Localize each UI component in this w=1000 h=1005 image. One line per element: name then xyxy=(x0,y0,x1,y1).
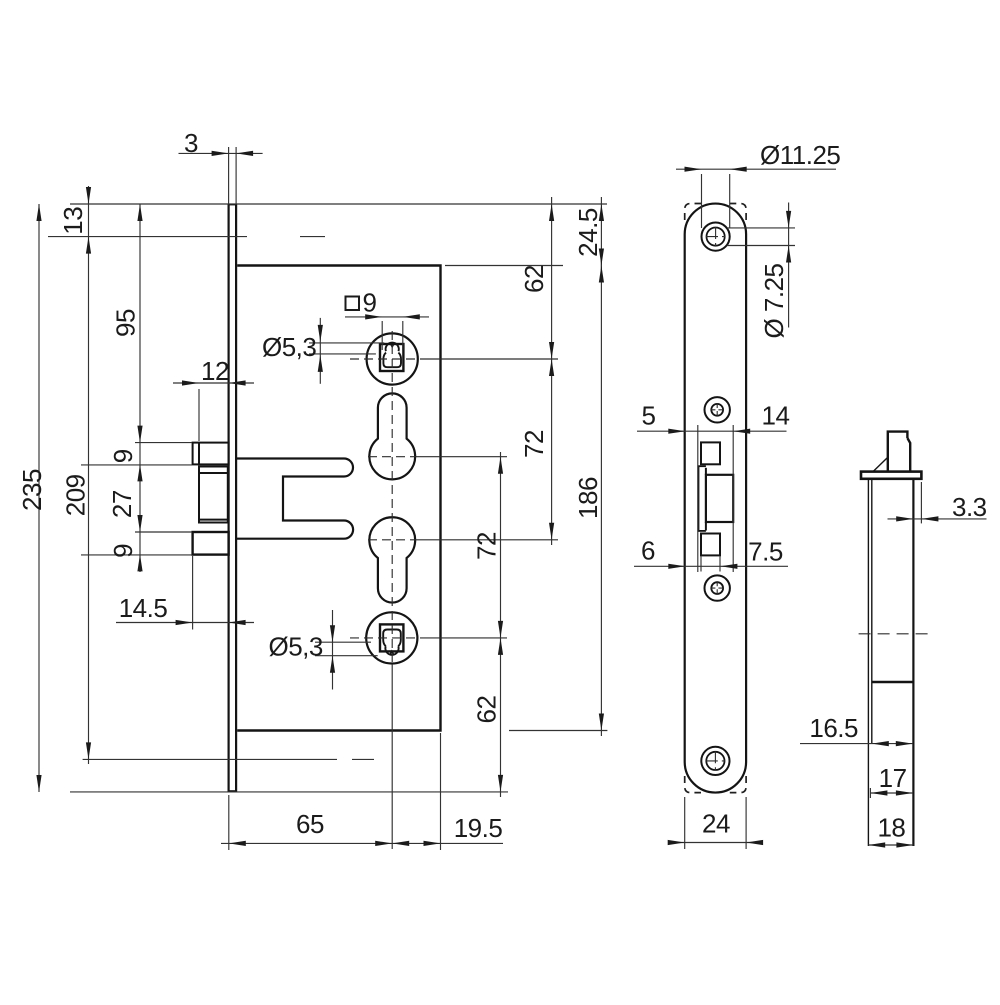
ext 24 left xyxy=(684,797,686,849)
sq9 dim arrows xyxy=(365,314,382,319)
13 arrows xyxy=(86,187,91,204)
ext 24 right xyxy=(745,797,747,849)
9 bottom arrow xyxy=(137,554,142,571)
3 dim arrows xyxy=(212,151,229,156)
case left outer wall xyxy=(867,479,869,846)
hole3 horizontal centerline dashes xyxy=(368,539,417,541)
top screw hole inner xyxy=(707,228,725,246)
svg-text:13: 13 xyxy=(58,207,88,235)
12 dim arrows xyxy=(182,380,199,385)
3.3 arrows xyxy=(896,516,913,521)
latch window top square xyxy=(701,442,720,464)
window jog bottom xyxy=(698,530,706,532)
window inner edge upper xyxy=(705,468,707,475)
ext grey left cutout xyxy=(697,425,699,572)
dim o7.25 vertical line xyxy=(788,203,790,328)
latch window bottom square xyxy=(701,534,720,556)
bottom screw cross xyxy=(714,751,716,770)
latch thin diagonal xyxy=(873,457,887,471)
middle view dashed square ends xyxy=(685,204,746,793)
top screw hole outer xyxy=(702,223,730,251)
ext line faceplate top level (long) xyxy=(70,203,607,205)
fork cutout in case xyxy=(236,459,353,539)
faceplate bottom edge xyxy=(229,790,237,792)
follower hole 4 circle o5.3 bottom arc xyxy=(385,646,398,655)
dim line 95 / 9 27 9 chain xyxy=(139,204,141,572)
vertical centerline solid below hole 4 xyxy=(391,664,393,849)
svg-text:Ø5,3: Ø5,3 xyxy=(269,632,323,662)
ext 3.3 faceplate right edge down xyxy=(920,482,922,523)
ext case right edge down xyxy=(440,733,442,850)
follower hole 1 circle o5.3 top arc xyxy=(386,343,399,352)
svg-text:Ø11.25: Ø11.25 xyxy=(760,140,840,170)
svg-text:9: 9 xyxy=(363,287,377,317)
19.5 arrows xyxy=(392,841,409,846)
ext ticks bottom square xyxy=(700,557,702,572)
upper middle screw outer xyxy=(705,397,730,422)
svg-text:17: 17 xyxy=(879,763,907,793)
24.5 arrows xyxy=(599,204,604,221)
dim 3 line above faceplate xyxy=(179,152,263,154)
latch bevel corner xyxy=(907,438,910,471)
vertical centerline through holes (dashed) xyxy=(391,331,393,664)
ext latch top xyxy=(135,442,192,444)
dim sq9 line xyxy=(345,316,429,318)
ext dash right of faceplate bottom screw axis xyxy=(352,758,374,760)
faceplate front edge (left line) xyxy=(228,204,230,792)
dim line 186 xyxy=(600,261,602,736)
follower hole 1 circle xyxy=(367,333,418,384)
follower hole 1 top notch xyxy=(391,344,394,347)
right chain dim line x551 (62 / 72) xyxy=(551,197,553,545)
dim line 24.5 xyxy=(600,197,602,270)
case left inner wall xyxy=(871,479,873,744)
9 top arrows xyxy=(137,464,142,481)
svg-text:186: 186 xyxy=(573,477,603,519)
svg-text:9: 9 xyxy=(108,449,138,463)
latch bevel line xyxy=(198,443,200,465)
top screw cross xyxy=(715,227,717,246)
svg-text:18: 18 xyxy=(877,813,905,843)
ext line screw axis top xyxy=(48,236,247,238)
svg-text:Ø5,3: Ø5,3 xyxy=(262,332,316,362)
case bottom edge xyxy=(872,681,914,684)
dim 24 line xyxy=(670,842,760,844)
hole3 centerline extension xyxy=(417,539,558,541)
72 inner chain arrows xyxy=(498,457,503,474)
95 arrows xyxy=(137,204,142,221)
svg-text:72: 72 xyxy=(472,532,502,560)
lock case outline xyxy=(237,266,440,731)
dim 16.5 line xyxy=(800,743,913,745)
svg-text:5: 5 xyxy=(642,401,656,431)
235 arrows xyxy=(36,204,41,221)
svg-text:27: 27 xyxy=(107,490,137,518)
lower middle screw inner xyxy=(711,582,723,594)
svg-text:14.5: 14.5 xyxy=(119,593,168,623)
faceplate bar xyxy=(861,472,921,479)
dim line 235 xyxy=(38,204,40,792)
latch box xyxy=(888,432,908,472)
62 bottom chain arrows xyxy=(498,638,503,655)
svg-text:24.5: 24.5 xyxy=(573,208,603,257)
65 arrows xyxy=(229,841,246,846)
dashed square corner bottom-left xyxy=(685,776,701,793)
14.5 dim arrows xyxy=(176,620,193,625)
svg-text:6: 6 xyxy=(641,536,655,566)
ext deadbolt bottom xyxy=(81,554,192,556)
middle view screw center crosses xyxy=(706,227,725,771)
case bottom ext to right xyxy=(509,730,607,732)
ext line screw axis bottom xyxy=(83,758,337,760)
dim 18 line xyxy=(868,844,913,846)
ext deadbolt left edge down xyxy=(192,556,194,630)
27 arrows xyxy=(137,515,142,532)
dashed square corner bottom-right xyxy=(730,776,746,793)
dashed square corner top-left xyxy=(685,204,701,221)
svg-text:72: 72 xyxy=(519,430,549,458)
window jog top xyxy=(698,465,706,467)
ext o11.25 left xyxy=(701,174,703,228)
62 top chain arrows xyxy=(549,204,554,221)
dashed square corner top-right xyxy=(730,204,746,221)
hole2 horizontal centerline dashes xyxy=(368,456,417,458)
o7.25 arrows xyxy=(786,211,791,228)
latch head box xyxy=(193,443,229,465)
18 arrows xyxy=(868,842,885,847)
svg-text:65: 65 xyxy=(296,809,324,839)
middle piece upper inner line xyxy=(199,472,228,474)
window left edge xyxy=(697,465,699,531)
ext grey right cutout xyxy=(732,425,734,572)
hole1 horizontal centerline dashes xyxy=(350,358,421,360)
bottom screw hole outer xyxy=(701,747,729,775)
svg-text:9: 9 xyxy=(108,544,138,558)
svg-text:95: 95 xyxy=(111,309,141,337)
ext 17 left xyxy=(869,788,871,798)
deadbolt rect xyxy=(706,475,733,522)
16.5 arrows xyxy=(872,741,889,746)
bottom screw hole inner xyxy=(706,752,724,770)
upper middle screw inner xyxy=(711,404,723,416)
svg-text:Ø 7.25: Ø 7.25 xyxy=(759,263,789,338)
follower hole 4 square xyxy=(380,624,403,651)
209 bottom arrow xyxy=(86,742,91,759)
follower hole 4 bottom notch xyxy=(390,651,393,654)
24 arrows xyxy=(668,840,685,845)
case right wall xyxy=(912,479,914,846)
mid screw small marks xyxy=(716,403,718,417)
o5.3 lower arrow line xyxy=(332,610,334,690)
o5.3 upper arrows xyxy=(318,325,323,342)
lower middle screw outer xyxy=(705,575,730,600)
dim 3.3 line xyxy=(888,518,987,520)
dim 12 line xyxy=(173,382,254,384)
o5.3 upper arrow line xyxy=(319,318,321,384)
cylinder hole lower (stem down) xyxy=(369,517,415,602)
svg-text:19.5: 19.5 xyxy=(454,813,503,843)
follower hole 1 square xyxy=(380,344,403,371)
faceplate back edge (right line) xyxy=(235,204,237,792)
svg-text:235: 235 xyxy=(17,469,47,511)
ext o11.25 right xyxy=(729,174,731,228)
ext deadbolt top xyxy=(135,531,192,533)
ext sq9 right xyxy=(402,321,404,350)
inner chain dim line x500 (72 / 62) xyxy=(500,452,502,797)
o5.3 lower arrows xyxy=(330,625,335,642)
middle piece lower inner line xyxy=(199,519,228,521)
ext latch bottom xyxy=(81,464,192,466)
dim 65 / 19.5 line xyxy=(221,842,503,844)
ext line latch bevel up xyxy=(198,389,200,441)
follower hole 4 tulip skirt xyxy=(383,630,401,647)
right view dashed centerline xyxy=(859,633,929,635)
ext faceplate left edge down xyxy=(228,795,230,850)
dim line 13 / 209 xyxy=(88,186,90,764)
svg-text:209: 209 xyxy=(61,474,91,516)
hole4 horizontal centerline dashes xyxy=(350,637,421,639)
deadbolt head box xyxy=(193,532,229,555)
dim 17 line xyxy=(870,792,913,794)
dim 14.5 line xyxy=(116,622,254,624)
faceplate top edge xyxy=(229,204,237,206)
o5.3 lower leader top xyxy=(315,641,371,643)
label square-9 symbol xyxy=(346,297,360,311)
follower hole 1 tulip skirt xyxy=(383,353,401,368)
ext o7.25 bottom xyxy=(727,245,795,247)
follower hole 4 circle xyxy=(366,612,417,663)
ext faceplate edges up xyxy=(228,147,230,204)
o5.3 upper leader bottom xyxy=(309,353,376,355)
5/14 arrows xyxy=(668,429,685,434)
o5.3 upper leader top xyxy=(309,342,384,344)
svg-text:14: 14 xyxy=(762,401,790,431)
window inner edge lower xyxy=(705,522,707,531)
svg-text:3.3: 3.3 xyxy=(952,492,987,522)
o5.3 lower leader bottom xyxy=(315,655,378,657)
dim o11.25 line xyxy=(676,168,836,170)
ext o7.25 top xyxy=(727,227,795,229)
svg-text:16.5: 16.5 xyxy=(809,713,858,743)
ext line faceplate bottom level (long) xyxy=(70,791,508,793)
dim 5/14 line xyxy=(637,430,787,432)
17 arrows xyxy=(870,790,887,795)
hole2 centerline extension xyxy=(417,456,507,458)
cylinder hole upper (stem up) xyxy=(369,393,415,479)
svg-text:62: 62 xyxy=(519,265,549,293)
svg-text:3: 3 xyxy=(184,128,198,158)
svg-text:62: 62 xyxy=(472,696,502,724)
dashed centerline xyxy=(859,633,929,635)
svg-text:7.5: 7.5 xyxy=(748,537,783,567)
case top ext to right xyxy=(445,265,563,267)
middle follower piece outer xyxy=(199,467,228,523)
hole4 centerline extension xyxy=(421,637,507,639)
hole1 centerline extension to right chain xyxy=(421,358,558,360)
6/7.5 arrows xyxy=(668,564,685,569)
svg-text:24: 24 xyxy=(702,809,730,839)
dim 6/7.5 line xyxy=(634,565,788,567)
186 arrows xyxy=(599,266,604,283)
faceplate stadium outline xyxy=(685,204,746,793)
ext sq9 left xyxy=(381,321,383,350)
ext dash right of faceplate top screw axis xyxy=(300,236,325,238)
o11.25 arrows xyxy=(685,167,702,172)
72 right chain arrows xyxy=(549,359,554,376)
svg-text:12: 12 xyxy=(201,356,229,386)
